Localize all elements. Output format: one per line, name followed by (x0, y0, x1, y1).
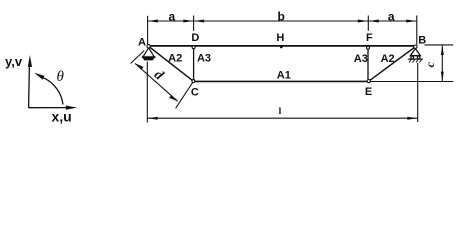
extension line below B support (417, 63, 419, 122)
roller support at B (408, 48, 423, 62)
dimension b line (194, 20, 368, 23)
svg-text:D: D (191, 32, 199, 44)
top chord member A-B (149, 45, 416, 47)
theta arc arrow (34, 73, 63, 105)
extension line above F (367, 16, 369, 31)
dimension a left line (148, 20, 193, 23)
svg-text:A2: A2 (168, 53, 182, 65)
diagonal member A2 B-E (369, 47, 416, 81)
svg-text:A3: A3 (197, 53, 211, 65)
svg-text:C: C (191, 86, 199, 98)
diagonal member A2 A-C (149, 46, 194, 81)
svg-text:F: F (366, 32, 373, 44)
svg-text:a: a (168, 10, 175, 24)
svg-text:c: c (423, 61, 437, 67)
dimension c line (441, 45, 444, 81)
svg-text:θ: θ (57, 69, 65, 85)
svg-text:A2: A2 (381, 53, 395, 65)
extension line above D (193, 16, 195, 31)
svg-text:a: a (388, 10, 395, 24)
pinned support at A (142, 48, 156, 61)
extension line above A (147, 16, 149, 45)
bottom chord member A1 C-E (193, 80, 368, 82)
extension line above B (416, 16, 418, 45)
svg-text:H: H (276, 32, 284, 44)
dimension a right line (369, 20, 417, 23)
node C circle (192, 80, 195, 83)
svg-text:l: l (279, 107, 282, 117)
svg-text:x,u: x,u (52, 108, 72, 124)
svg-text:y,v: y,v (5, 54, 23, 69)
dimension d line (135, 63, 178, 101)
extension line right of B (425, 44, 454, 46)
node E circle (367, 80, 370, 83)
svg-text:E: E (365, 86, 372, 98)
extension line from A for d (131, 51, 145, 64)
node A circle (147, 45, 150, 48)
extension line from C for d (176, 82, 193, 108)
vertical member A3 D-C (193, 47, 195, 81)
node H dot (280, 46, 283, 49)
svg-text:b: b (278, 9, 285, 23)
axis y,v arrow (28, 55, 32, 108)
vertical member A3 F-E (367, 48, 369, 81)
node F circle (367, 46, 370, 49)
extension line right of E level (371, 81, 454, 83)
svg-text:A: A (138, 36, 146, 48)
node D circle (192, 46, 195, 49)
axis x,u arrow (29, 106, 78, 110)
node B circle (414, 45, 417, 48)
svg-text:A1: A1 (277, 70, 291, 82)
extension line below A support (146, 62, 148, 123)
svg-text:A3: A3 (354, 53, 368, 65)
dimension l line (148, 117, 418, 120)
